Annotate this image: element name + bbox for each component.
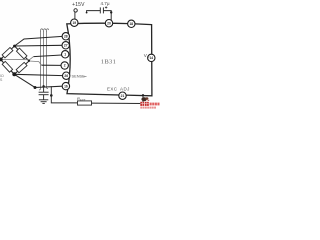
svg-text:4.7μ: 4.7μ [100, 1, 109, 6]
svg-text:16: 16 [64, 84, 68, 88]
svg-text:26: 26 [64, 74, 68, 78]
svg-text:EXC ADJ: EXC ADJ [107, 86, 130, 91]
svg-text:18: 18 [129, 22, 133, 26]
svg-text:iS: iS [0, 78, 3, 82]
svg-text:27: 27 [64, 44, 68, 48]
svg-text:EXT: EXT [80, 98, 86, 102]
svg-text:+15V: +15V [72, 2, 85, 8]
svg-text:14: 14 [149, 56, 153, 60]
svg-text:SENSE: SENSE [72, 73, 86, 78]
svg-text:1: 1 [64, 53, 66, 57]
svg-text:2: 2 [64, 64, 66, 68]
svg-text:1B31: 1B31 [101, 59, 117, 66]
svg-text:20: 20 [107, 21, 111, 25]
svg-text:28: 28 [64, 35, 68, 39]
svg-text:21: 21 [121, 94, 125, 98]
svg-text:19: 19 [72, 21, 76, 25]
